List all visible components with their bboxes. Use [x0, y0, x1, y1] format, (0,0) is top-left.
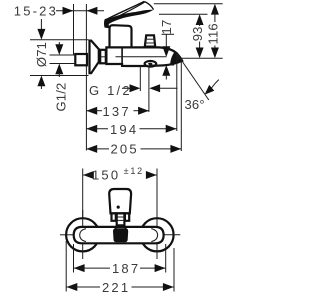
svg-text:93: 93	[190, 26, 205, 41]
handle neck	[117, 213, 125, 225]
capsule inner left arc	[80, 229, 86, 242]
dim G1/2 pipe top ext line	[50, 54, 76, 56]
dim 187 arrow left	[74, 264, 85, 272]
handle pivot	[104, 18, 110, 28]
dim O71 stem top	[40, 19, 42, 31]
dim 187 right ext line	[165, 244, 167, 273]
spout tip fill	[170, 52, 182, 64]
hose nipple	[145, 61, 157, 67]
neck flare right	[124, 225, 126, 229]
svg-text:±12: ±12	[124, 166, 144, 176]
dim 194 line right	[140, 128, 177, 130]
dim 187 line left	[74, 267, 110, 269]
ext line spout tip	[180, 61, 182, 151]
dim 17 crossbar	[162, 33, 175, 35]
left circle horizontal tick	[60, 234, 74, 236]
handle dot	[117, 206, 120, 209]
dim 150 line left	[83, 174, 92, 176]
left circle vertical centerline	[82, 210, 84, 259]
dim 93 top ext line	[159, 13, 208, 15]
dim 15-23 arrow right	[63, 7, 74, 15]
svg-text:G 1/2: G 1/2	[89, 83, 132, 98]
dim G1/2 arrow down	[55, 44, 63, 55]
svg-text:116: 116	[205, 23, 220, 44]
dim 137 arrow right	[138, 107, 149, 115]
dim 116 top ext line	[154, 3, 223, 5]
dim 150 arrow right	[146, 171, 157, 179]
wall line A	[73, 4, 75, 55]
dim G1/2 pipe bottom ext line	[50, 63, 76, 65]
dim 205 line right	[141, 148, 182, 150]
left escutcheon circle	[66, 218, 99, 251]
dim O71 top ext line	[30, 39, 89, 41]
spout seam line	[116, 56, 167, 58]
neck band 1	[117, 216, 125, 218]
capsule inner right arc	[151, 229, 157, 242]
dim 194 arrow right	[166, 125, 177, 133]
coupling ring	[100, 50, 106, 64]
dim 150 arrow left	[83, 171, 94, 179]
handle collar left tab	[112, 213, 116, 220]
union nut	[75, 54, 87, 65]
diverter band 2	[145, 42, 155, 44]
handle lever inner edge	[106, 2, 145, 23]
hose dim left ext line	[139, 67, 141, 92]
svg-text:137: 137	[103, 104, 131, 119]
cartridge block	[110, 25, 132, 47]
dim 93 line lower	[199, 42, 201, 51]
faucet body and spout	[106, 47, 182, 66]
svg-text:36°: 36°	[185, 97, 205, 112]
dim G1/2 stem top	[58, 42, 60, 47]
handle lever bottom swoosh	[104, 10, 154, 26]
hose nipple hole	[148, 63, 152, 65]
dim 187 line right	[140, 267, 165, 269]
svg-text:187: 187	[112, 261, 140, 276]
dim 36 arrow	[205, 85, 215, 95]
body seam vertical	[121, 47, 123, 66]
dim 187 arrow right	[155, 264, 166, 272]
dim 150 line right	[147, 174, 157, 176]
dim G1/2 arrow up	[55, 64, 63, 75]
dim 17 arrow up	[162, 65, 170, 76]
ext line spout front	[176, 53, 178, 131]
dim G1/2 stem bottom	[58, 73, 60, 77]
dim 205 arrow left	[86, 145, 97, 153]
handle front	[109, 189, 131, 213]
dim 137 arrow left	[86, 107, 97, 115]
handle lever end face	[145, 2, 154, 10]
diverter band 1	[145, 38, 154, 40]
hose dim arrow left	[149, 84, 160, 92]
body capsule	[74, 227, 164, 243]
dim 17 stem	[165, 34, 167, 48]
dim 93 arrow up	[196, 14, 204, 25]
dim 221 arrow right	[163, 283, 174, 291]
dim O71 bottom ext line	[30, 75, 89, 77]
handle lever top edge	[105, 1, 145, 20]
dim 17 arrow down	[162, 46, 170, 57]
dim 17 stem bottom	[165, 75, 167, 80]
dim 194 arrow left	[86, 125, 97, 133]
dim 194 line left	[86, 128, 108, 130]
coupling ring midline	[100, 56, 106, 58]
dim 221 line right	[132, 286, 174, 288]
dim 137 line left	[86, 110, 102, 112]
dim 221 left ext line	[65, 241, 67, 292]
dim 205 line left	[86, 148, 109, 150]
dim 137 line right	[134, 110, 149, 112]
dim 150 right ext line	[156, 169, 158, 218]
outlet level ref line	[178, 57, 223, 59]
svg-text:Ø71: Ø71	[34, 42, 49, 67]
dim 116 arrow down	[211, 48, 219, 59]
dim O71 arrow down	[37, 29, 45, 40]
dim 116 arrow up	[211, 4, 219, 15]
dim 15-23 arrow left	[87, 7, 98, 15]
dim 15-23 line	[56, 10, 104, 12]
dim 116 line upper	[214, 11, 216, 22]
dim O71 stem bottom	[40, 85, 42, 89]
dim 17 lower ext line	[149, 64, 174, 66]
dim 116 line lower	[214, 46, 216, 51]
diverter knob	[145, 35, 155, 46]
diverter knob front	[113, 228, 128, 242]
dim 150 left ext line	[82, 169, 84, 218]
svg-text:15-23: 15-23	[14, 4, 58, 19]
svg-text:205: 205	[111, 141, 139, 156]
wall line B	[85, 4, 87, 151]
dim 36 arrow tail	[212, 80, 219, 88]
right circle vertical centerline	[156, 210, 158, 259]
dim 221 line left	[67, 286, 101, 288]
svg-text:G1/2: G1/2	[53, 83, 68, 112]
svg-text:17: 17	[159, 20, 174, 35]
svg-text:194: 194	[110, 122, 138, 137]
right escutcheon circle	[140, 218, 173, 251]
svg-text:221: 221	[102, 280, 130, 295]
dim 221 arrow left	[67, 283, 78, 291]
dim 221 right ext line	[173, 248, 175, 292]
hose dim arrow right	[130, 84, 141, 92]
hose dim tail right	[159, 87, 178, 89]
dim O71 arrow up	[37, 76, 45, 87]
dim 93 arrow down	[196, 48, 204, 59]
svg-text:150: 150	[92, 168, 120, 183]
dim 36 diagonal line	[177, 54, 209, 101]
hose dim right ext line	[148, 67, 150, 113]
handle collar right tab	[125, 213, 129, 220]
right circle horizontal tick	[164, 234, 181, 236]
neck flare left	[115, 225, 117, 229]
hose dim tail left	[122, 87, 132, 89]
neck band 2	[117, 219, 125, 221]
dim 93 line upper	[199, 22, 201, 26]
escutcheon bell	[90, 41, 99, 74]
dim 187 left ext line	[73, 244, 75, 273]
dim 205 arrow right	[170, 145, 181, 153]
